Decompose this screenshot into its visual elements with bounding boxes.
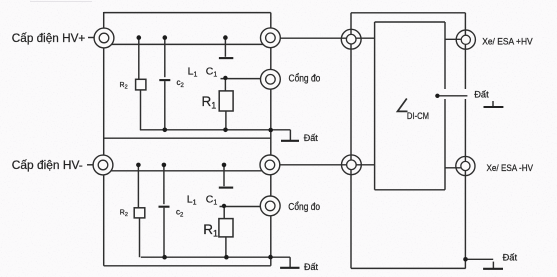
svg-text:Đất: Đất	[474, 89, 489, 99]
svg-text:Cấp điện HV+: Cấp điện HV+	[12, 31, 86, 45]
svg-text:Đất: Đất	[304, 262, 319, 272]
svg-text:Đất: Đất	[304, 133, 319, 143]
svg-text:Cấp điện HV-: Cấp điện HV-	[12, 158, 83, 172]
svg-text:Xe/ ESA -HV: Xe/ ESA -HV	[487, 163, 534, 173]
svg-text:Cổng đo: Cổng đo	[289, 73, 321, 85]
svg-text:Đất: Đất	[503, 252, 518, 262]
svg-text:DI-CM: DI-CM	[407, 111, 429, 121]
svg-text:Cổng đo: Cổng đo	[288, 201, 320, 213]
svg-text:Xe/ ESA +HV: Xe/ ESA +HV	[482, 37, 533, 47]
